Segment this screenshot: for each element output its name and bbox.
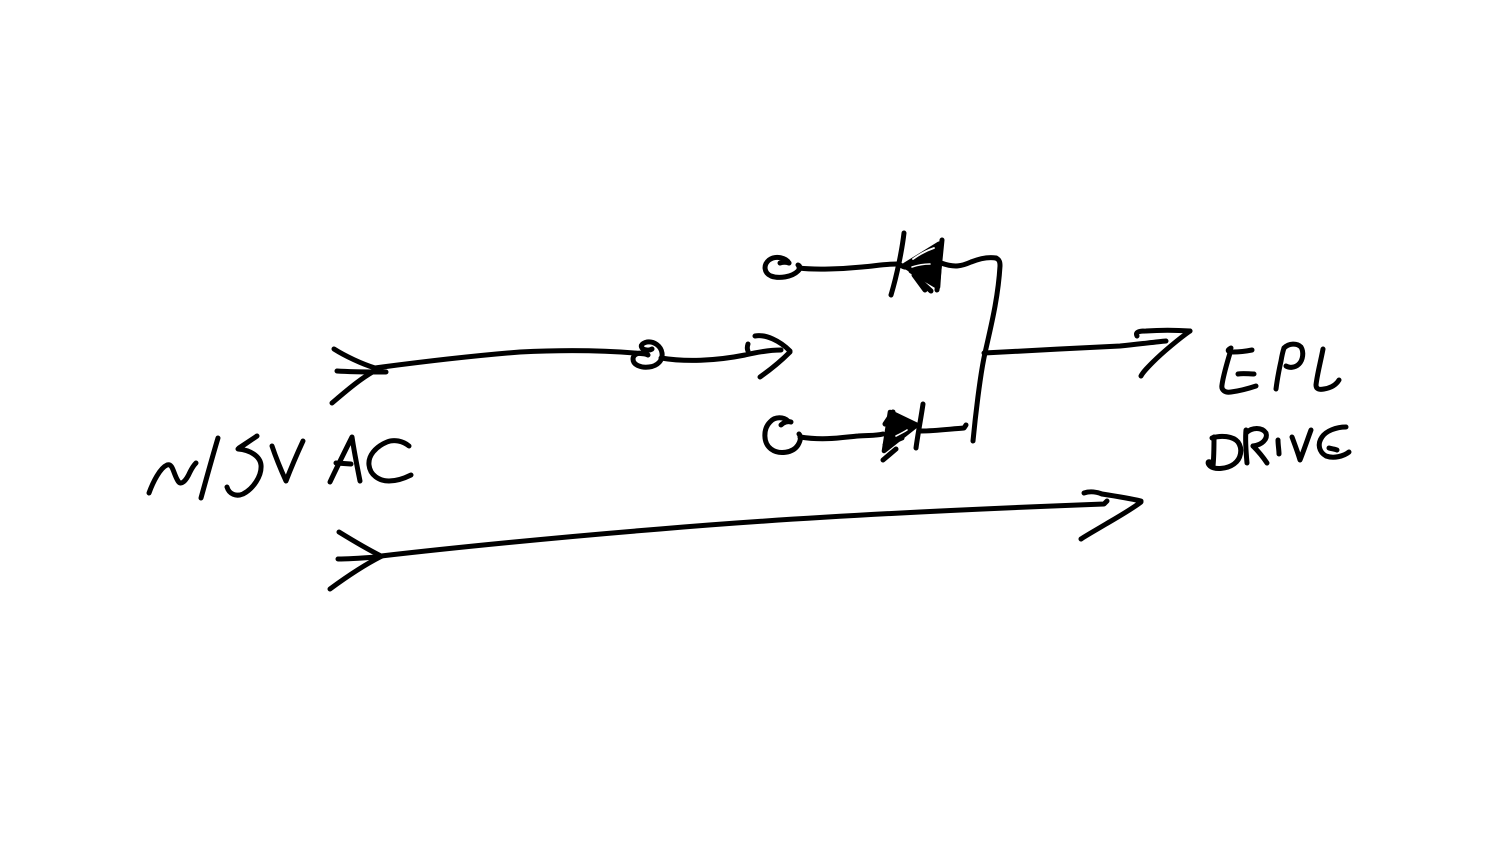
node: loop junction on top input wire	[633, 342, 662, 367]
diode D2 cathode bar (right)	[916, 404, 923, 448]
wire: bottom AC return line	[339, 501, 1107, 556]
arrowhead: output arrow (pointing right)	[1136, 330, 1190, 376]
terminal: bottom diode input circle	[765, 418, 801, 453]
label EPL	[1222, 344, 1339, 392]
wire: diode D1 output to vertical join	[941, 258, 996, 266]
wire: vertical join line	[973, 258, 1000, 441]
diode D1 triangle (filled, pointing left)	[905, 240, 942, 291]
wire: top AC input line arrowhead (left, pointing right)	[332, 369, 386, 403]
diode D1 cathode bar (left)	[891, 233, 904, 295]
wire: output to EPL DRIVE	[984, 341, 1166, 353]
wire: top AC input line	[334, 349, 646, 368]
label DRIVE	[1208, 427, 1349, 468]
wire: top terminal to diode D1	[799, 264, 906, 269]
label ~15V AC	[149, 436, 411, 498]
wire: diode D2 output toward vertical join	[921, 425, 966, 431]
wire: loop to mid arrow	[661, 350, 781, 360]
diode D2 triangle (filled, pointing right)	[883, 412, 917, 460]
wire: bottom terminal to diode D2	[800, 434, 883, 439]
wire: bottom AC return line arrowhead (left, pointing right)	[330, 556, 382, 589]
arrowhead: mid of top wire (pointing right)	[747, 336, 790, 377]
arrowhead: bottom return line right (pointing right)	[1081, 492, 1141, 539]
terminal: top diode input circle	[765, 257, 800, 277]
